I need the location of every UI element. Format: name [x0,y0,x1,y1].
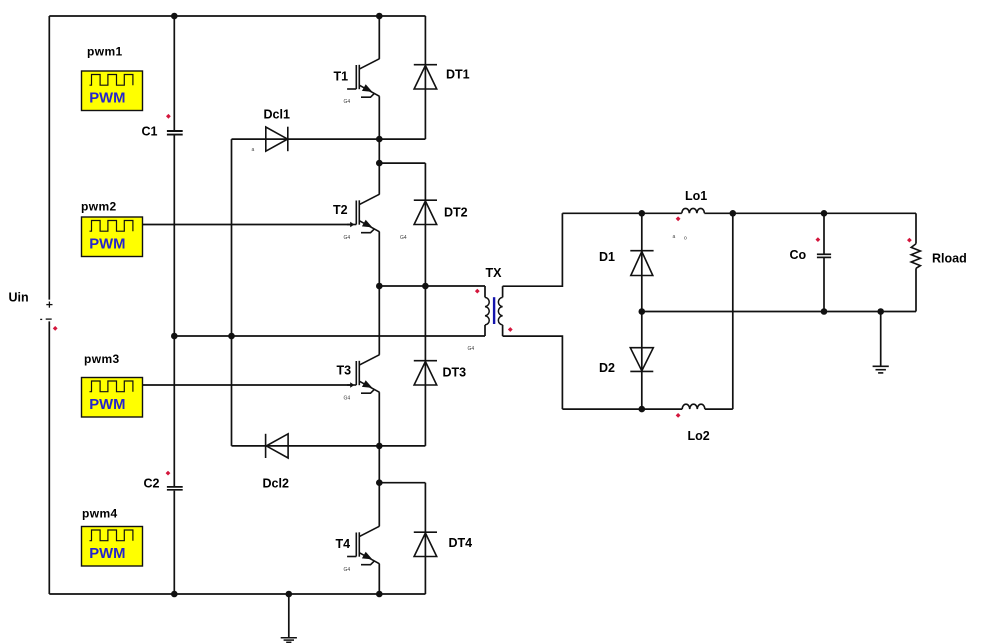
svg-text:T4: T4 [336,537,351,551]
svg-text:Dcl2: Dcl2 [263,477,289,491]
svg-text:C2: C2 [144,477,160,491]
svg-text:pwm3: pwm3 [84,352,120,366]
svg-text:DT1: DT1 [446,68,470,82]
svg-text:G4: G4 [344,396,351,402]
svg-text:Lo2: Lo2 [688,429,710,443]
svg-text:Dcl1: Dcl1 [264,108,290,122]
svg-text:o: o [684,236,687,242]
svg-text:Co: Co [790,248,807,262]
svg-text:pwm1: pwm1 [87,45,123,59]
svg-text:T2: T2 [333,203,348,217]
svg-text:Uin: Uin [9,291,29,305]
svg-text:TX: TX [486,266,503,280]
svg-text:pwm2: pwm2 [81,200,117,214]
svg-text:D2: D2 [599,361,615,375]
svg-text:G4: G4 [344,99,351,105]
svg-text:T3: T3 [337,364,352,378]
svg-text:G4: G4 [344,235,351,241]
svg-text:D1: D1 [599,250,615,264]
svg-text:DT4: DT4 [449,536,473,550]
svg-text:a: a [252,147,255,153]
svg-text:G4: G4 [468,346,475,352]
svg-text:DT2: DT2 [444,206,468,220]
svg-text:G4: G4 [344,567,351,573]
svg-text:pwm4: pwm4 [82,507,118,521]
svg-text:G4: G4 [400,235,407,241]
svg-text:a: a [673,234,676,240]
svg-text:C1: C1 [142,125,158,139]
svg-text:Lo1: Lo1 [685,189,707,203]
svg-text:Rload: Rload [932,251,967,265]
svg-text:DT3: DT3 [443,366,467,380]
svg-text:T1: T1 [334,70,349,84]
